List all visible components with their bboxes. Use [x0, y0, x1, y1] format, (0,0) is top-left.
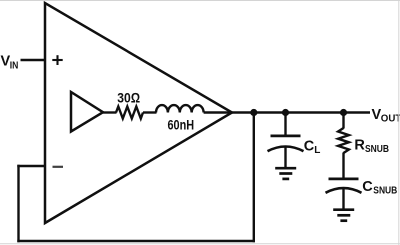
op-amp U1 plus input pin marker: [52, 55, 62, 65]
wire feedback bottom run: [17, 240, 255, 242]
op-amp U1 minus input pin marker: [53, 166, 64, 168]
capacitor CSNUB: [326, 179, 362, 193]
svg-text:C: C: [304, 138, 315, 154]
svg-text:60nH: 60nH: [168, 117, 195, 133]
wire RSNUB to CSNUB: [342, 153, 344, 179]
wire CL capacitor to ground: [284, 147, 286, 169]
svg-text:SNUB: SNUB: [365, 144, 389, 155]
wire resistor to inductor: [143, 111, 157, 113]
resistor 30ohm: [116, 107, 143, 119]
svg-text:SNUB: SNUB: [373, 185, 397, 196]
svg-text:IN: IN: [10, 60, 19, 71]
wire inductor to U1 output tip: [204, 111, 232, 113]
wire feedback left riser: [17, 165, 19, 242]
svg-text:R: R: [354, 137, 365, 153]
wire U1 output to VOUT: [232, 111, 370, 113]
label CSNUB: [362, 179, 397, 197]
node VIN label: [1, 54, 19, 72]
capacitor CL: [268, 136, 304, 151]
ground for CSNUB: [333, 210, 354, 221]
wire RSNUB node down to resistor: [342, 113, 344, 129]
buffer amplifier inside U1: [71, 92, 103, 132]
label RSNUB: [354, 137, 389, 155]
junction node: RSNUB tap: [340, 109, 347, 116]
wire feedback to minus input: [17, 165, 44, 167]
wire CSNUB capacitor to ground: [342, 188, 344, 210]
wire feedback vertical drop from output: [253, 113, 255, 243]
wire buffer output to resistor: [103, 111, 117, 113]
svg-text:C: C: [362, 179, 373, 195]
inductor 60nH: [156, 105, 204, 112]
wire VIN to + input: [21, 59, 45, 61]
label CL: [304, 138, 321, 156]
junction node: CL tap: [282, 109, 289, 116]
svg-text:30Ω: 30Ω: [117, 90, 140, 106]
svg-text:L: L: [314, 145, 320, 156]
resistor RSNUB: [338, 128, 349, 153]
node VOUT label: [372, 107, 400, 125]
ground for CL: [275, 168, 296, 179]
wire CL node down to capacitor: [284, 113, 286, 136]
junction node: feedback tap: [250, 109, 257, 116]
svg-text:OUT: OUT: [381, 114, 400, 125]
op-amp U1: [45, 3, 232, 223]
